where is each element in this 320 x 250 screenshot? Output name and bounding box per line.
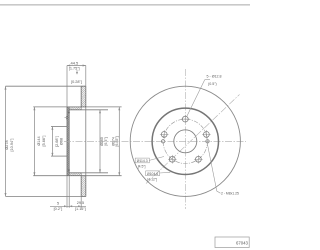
leader arrow down for thickness (76, 70, 78, 74)
bolt hole top (182, 116, 188, 122)
arrow hat top (33, 107, 35, 110)
wire: disc outboard (left) face lower (80, 176, 82, 197)
svg-text:7.1: 7.1 (65, 115, 69, 120)
svg-text:Ø68: Ø68 (60, 138, 64, 145)
wire: disc inboard (right) face full height (85, 86, 87, 196)
M8 hole right (206, 140, 209, 143)
svg-text:[0.28"]: [0.28"] (71, 80, 82, 84)
arrow hat dia right bottom (118, 172, 120, 175)
centerline vertical (184, 69, 186, 209)
arrow hat inner bottom (99, 169, 101, 172)
arrow bore top (51, 127, 53, 130)
wire: bottom edge / extension line to OD dim (6, 195, 86, 197)
svg-text:[1.16"]: [1.16"] (75, 207, 86, 211)
hat circle (152, 108, 218, 174)
wall thickness arrow top (68, 110, 70, 124)
top page border line (0, 4, 250, 6)
svg-text:[4.5"]: [4.5"] (138, 164, 146, 168)
extension line 44.5 right (85, 66, 87, 87)
extension line 44.5 left (66, 66, 68, 107)
extension line bottom at flange right (68, 176, 70, 208)
svg-text:Ø104.6: Ø104.6 (147, 172, 158, 176)
leader box2 (160, 171, 171, 174)
centerline horizontal (64, 140, 246, 142)
arrow OD bottom (5, 193, 7, 196)
outer circle (130, 86, 240, 196)
arrow bore bottom (51, 153, 53, 156)
dimension line OD Ø278 (5, 86, 7, 196)
wall thickness arrow bottom (68, 159, 70, 173)
leader box1 (149, 157, 164, 161)
svg-text:(0.5"): (0.5") (208, 82, 217, 86)
wire: hat wall inner surface bottom + extension (69, 172, 108, 174)
bore circle (174, 130, 197, 153)
svg-text:[10.94"]: [10.94"] (10, 139, 14, 152)
bolt holes 5x with cross ticks (160, 115, 211, 164)
svg-text:5 - Ø12.8: 5 - Ø12.8 (207, 75, 222, 79)
svg-text:44.5: 44.5 (71, 60, 80, 65)
svg-text:[4.12"]: [4.12"] (147, 177, 157, 181)
bolt hole lower right (196, 156, 202, 162)
svg-text:[0.2"]: [0.2"] (54, 207, 63, 211)
arrow hat bottom (33, 172, 35, 175)
hatch: disc band bottom (81, 176, 86, 197)
arrow hat inner top (99, 110, 101, 113)
dimension line hat dia right view Ø174 (118, 107, 120, 176)
arrow 44.5 right (83, 65, 86, 67)
dimension line hat inner Ø160 (99, 110, 101, 173)
bolt circle dash-dot (163, 119, 207, 163)
wire: top edge / extension line to OD dim (6, 85, 86, 87)
svg-text:29.5: 29.5 (77, 201, 84, 205)
svg-text:5: 5 (57, 201, 59, 205)
svg-text:2 - M8x1.25: 2 - M8x1.25 (221, 191, 239, 195)
svg-text:[2.68"]: [2.68"] (55, 136, 59, 147)
wire: hat wall outer surface bottom + extensions (33, 175, 121, 177)
leader 5-Ø12.8 (187, 80, 205, 116)
wire: bore bottom edge (51, 155, 67, 157)
extension line bottom at flange left (66, 176, 68, 208)
svg-text:Ø144: Ø144 (37, 136, 41, 145)
dimension line hat OD Ø144 (33, 107, 35, 176)
arrow wall thickness top (points up) (68, 110, 70, 113)
wire: flange right face upper (68, 110, 70, 173)
svg-text:[1.75"]: [1.75"] (69, 67, 80, 71)
leader elbow (205, 79, 210, 81)
arrowheads group (5, 65, 121, 208)
hatch: hat wall bottom (69, 173, 81, 176)
bolt hole upper right (204, 132, 210, 138)
arrow bottom 5 left (64, 205, 67, 207)
extension line bottom at disc left face (80, 196, 82, 207)
arrow hat dia right top (118, 107, 120, 110)
wire: flange left face upper (66, 107, 68, 176)
arrow bottom 5 right (69, 205, 72, 207)
hatch: hat wall top (69, 107, 81, 110)
dimension line overall height 44.5 top (67, 65, 86, 67)
bolt hole upper left (161, 132, 167, 138)
arrow 44.5 left (67, 65, 70, 67)
arrow bottom 29.5 right (78, 205, 81, 207)
hatch: disc band top (81, 86, 86, 107)
svg-text:Ø114.3: Ø114.3 (137, 159, 148, 163)
svg-text:[5.66"]: [5.66"] (42, 136, 46, 147)
dimension line bore Ø68 (51, 127, 53, 157)
box label Ø104.6 (146, 171, 160, 176)
wire: hat wall inner surface top + extension (69, 109, 108, 111)
svg-text:Ø278: Ø278 (5, 140, 9, 149)
wire: disc outboard (left) face upper (80, 86, 82, 107)
dimension line bottom 5 / 29.5 (50, 205, 86, 207)
centerline diagonal (146, 95, 240, 184)
bolt hole lower left (169, 156, 175, 162)
wire: bore top edge (51, 126, 67, 128)
leader 2-M8 (208, 145, 221, 194)
wire: hat wall outer surface top + extensions (33, 106, 121, 108)
part number box (215, 237, 249, 248)
arrow wall thickness bottom (points down) (68, 170, 70, 173)
M8 hole left (161, 140, 164, 143)
svg-text:67043: 67043 (236, 241, 249, 246)
box label Ø114.3 (135, 158, 149, 163)
arrow OD top (5, 86, 7, 89)
hatch: flange plate upper (67, 107, 69, 176)
